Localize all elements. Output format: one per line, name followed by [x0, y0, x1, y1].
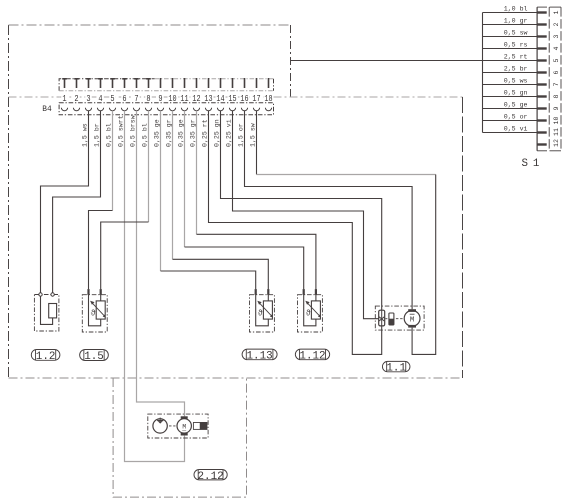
connector B4 pin numbers 1-18: [59, 93, 273, 104]
unit 1.1 box: [375, 306, 424, 330]
svg-text:0,5 brsw: 0,5 brsw: [129, 115, 136, 147]
wire S1 pin9 0,5 ge: [483, 108, 538, 110]
svg-text:8: 8: [553, 94, 560, 98]
wire S1 pin6 2,5 br: [483, 72, 538, 74]
svg-text:1.1: 1.1: [386, 363, 406, 375]
svg-text:ϑ: ϑ: [306, 308, 311, 318]
wire S1 pin1 1,0 bl: [483, 12, 538, 14]
wire B4 pin11 vertical gray: [184, 111, 186, 247]
boundary frame mid horizontal left of B4: [9, 96, 60, 98]
wire label 2,5 br: [504, 66, 528, 73]
wire label 1.5 sw: [249, 123, 256, 147]
washer nozzle symbol in 2.12: [153, 418, 167, 433]
svg-text:10: 10: [553, 117, 560, 125]
svg-text:4: 4: [553, 46, 560, 50]
svg-text:0,35 ge: 0,35 ge: [153, 119, 160, 147]
svg-text:0,35 gr: 0,35 gr: [165, 119, 172, 147]
wire label 1.5 ws: [81, 123, 88, 147]
wire B4 pin9 vertical gray: [160, 111, 162, 271]
wire B4 pin8 to 1.5 right: [101, 222, 149, 289]
designator label 1.12: [295, 349, 329, 362]
wire label 0,5 or: [504, 114, 528, 121]
svg-text:0,5 vi: 0,5 vi: [504, 126, 528, 133]
designator label 1.2: [31, 350, 60, 364]
wire B4 pin16 to 1.1 motor top: [245, 111, 413, 310]
boundary frame 2.12 bay: [113, 378, 246, 497]
wire label 0.5 bl pin5: [105, 123, 112, 147]
svg-text:M: M: [410, 317, 414, 325]
wire label 0.25 rt: [201, 119, 208, 147]
svg-text:1.12: 1.12: [299, 351, 325, 363]
svg-text:0,5 or: 0,5 or: [504, 114, 528, 121]
wire label 0,5 rs: [504, 42, 528, 49]
wire S1 pin7 0,5 ws: [483, 84, 538, 86]
wire label 0.5 brsw: [129, 115, 136, 147]
svg-text:1: 1: [553, 10, 560, 14]
svg-text:1: 1: [533, 158, 539, 170]
resistor 1.2: [34, 293, 59, 331]
valve Y in 1.1: [379, 310, 385, 326]
connector B4 male pins 1-18: [62, 78, 269, 88]
wire B4 pin12 vertical gray: [196, 111, 198, 235]
connector B4 pin-header bottom gray line: [59, 90, 273, 92]
boundary frame step vertical: [290, 25, 292, 97]
wire B4 pin4 to 1.2 right: [53, 111, 101, 293]
svg-text:0,5 bl: 0,5 bl: [141, 123, 148, 147]
wire B4 pin13 to 1.1 valve bottom: [209, 111, 382, 355]
svg-text:0,35 ge: 0,35 ge: [177, 119, 184, 147]
wire B4 pin7 to 2.12 motor top: [137, 111, 185, 417]
svg-text:7: 7: [553, 82, 560, 86]
svg-text:0,5 bl: 0,5 bl: [105, 123, 112, 147]
boundary frame mid horizontal right of B4: [274, 96, 463, 98]
dash link in 1.1: [385, 318, 403, 320]
svg-text:0,5 sw: 0,5 sw: [504, 30, 528, 37]
designator label 1.5: [80, 350, 109, 364]
connector S1 pin numbers 1-12: [553, 10, 560, 146]
wire B4 pin9 to 1.13 left: [161, 271, 256, 289]
svg-text:2.12: 2.12: [198, 471, 224, 483]
wire B4 pin8 vertical gray: [148, 111, 150, 222]
wire S1 pin4 0,5 rs: [483, 48, 538, 50]
temperature sensor 1.13: [250, 289, 275, 332]
svg-text:1,0 gr: 1,0 gr: [504, 18, 528, 25]
designator label 1.13: [242, 349, 277, 362]
wire B4 pin5 to 1.5 left: [89, 211, 113, 290]
wire label 1.5 br: [93, 123, 100, 147]
pump unit 2.12 box: [148, 414, 208, 438]
svg-text:11: 11: [553, 128, 560, 136]
svg-text:0,35 gr: 0,35 gr: [189, 119, 196, 147]
motor M in 2.12: [177, 416, 191, 435]
wire B4 pin6 to 2.12 motor bottom: [125, 111, 185, 462]
wire label 0,5 sw: [504, 30, 528, 37]
wire S1 pin10 0,5 or: [483, 120, 538, 122]
svg-text:1,5 ws: 1,5 ws: [81, 123, 88, 147]
wire S1 pin2 1,0 gr: [483, 24, 538, 26]
wire S1 harness edge: [482, 13, 484, 133]
wire S1 pin5 2,5 rt: [291, 60, 538, 62]
connector B4 socket contacts: [61, 108, 271, 111]
svg-text:5: 5: [553, 58, 560, 62]
wire label 1,0 bl: [504, 6, 528, 13]
designator label 2.12: [194, 470, 227, 483]
temperature sensor 1.12: [298, 289, 323, 332]
connector B4 socket box: [59, 103, 273, 115]
svg-text:6: 6: [553, 70, 560, 74]
svg-text:1,5 sw: 1,5 sw: [249, 123, 256, 147]
svg-text:1.2: 1.2: [36, 351, 56, 363]
wire label 0.5 swrt: [117, 115, 124, 147]
wire label 1,0 gr: [504, 18, 528, 25]
svg-text:9: 9: [553, 106, 560, 110]
svg-text:ϑ: ϑ: [258, 308, 263, 318]
connector B4 designator label: [42, 105, 52, 114]
svg-text:1,5 or: 1,5 or: [237, 123, 244, 147]
svg-text:0,5 rs: 0,5 rs: [504, 42, 528, 49]
svg-text:1,0 bl: 1,0 bl: [504, 6, 528, 13]
boundary frame top edge: [9, 24, 291, 26]
wire B4 pin3 to 1.2 left: [41, 111, 89, 293]
wire B4 pin15 to 1.1 valve left: [233, 111, 379, 319]
svg-text:0,5 swrt: 0,5 swrt: [117, 115, 124, 147]
wire label 1.5 or: [237, 123, 244, 147]
connector plug in 2.12: [193, 422, 207, 430]
svg-text:2,5 br: 2,5 br: [504, 66, 528, 73]
svg-text:0,25 rt: 0,25 rt: [201, 119, 208, 147]
svg-text:0,25 vi: 0,25 vi: [225, 119, 232, 147]
svg-text:2: 2: [553, 22, 560, 26]
wire label 0.35 gr pin12: [189, 119, 196, 147]
wire B4 pin17 vertical: [256, 111, 258, 175]
wire B4 pin12 to 1.12 right: [197, 234, 316, 289]
svg-text:0,5 ws: 0,5 ws: [504, 78, 528, 85]
temperature sensor 1.5: [82, 289, 107, 332]
svg-text:S: S: [522, 158, 528, 170]
svg-text:1.5: 1.5: [84, 351, 104, 363]
connector B4 pin-header box: [59, 79, 273, 91]
svg-text:1.13: 1.13: [247, 351, 273, 363]
connector S1 designator label: [522, 158, 540, 170]
connector S1 body and pins: [537, 7, 561, 151]
wire label 0.35 ge pin11: [177, 119, 184, 147]
dash link in 2.12: [169, 425, 176, 427]
wire S1 pin3 0,5 sw: [483, 36, 538, 38]
motor M in 1.1: [404, 309, 420, 327]
wire S1 pin8 0,5 gn: [483, 96, 538, 98]
svg-text:0,5 ge: 0,5 ge: [504, 102, 528, 109]
wire label 0,5 ge: [504, 102, 528, 109]
boundary frame bottom edge: [9, 377, 463, 379]
wire label 0,5 vi: [504, 126, 528, 133]
designator label 1.1: [382, 361, 410, 374]
svg-text:12: 12: [553, 139, 560, 147]
wire B4 pin14 to 1.1 valve top: [221, 111, 382, 311]
wire label 2,5 rt: [504, 54, 528, 61]
connector plug in 1.1: [389, 313, 394, 325]
svg-text:0,25 gn: 0,25 gn: [213, 119, 220, 147]
wire B4 pin10 vertical gray: [172, 111, 174, 260]
svg-text:1,5 br: 1,5 br: [93, 123, 100, 147]
svg-text:ϑ: ϑ: [91, 308, 96, 318]
wire label 0.35 gr pin10: [165, 119, 172, 147]
wire label 0.35 ge pin9: [153, 119, 160, 147]
boundary frame right edge: [462, 97, 464, 378]
wire S1 pin11 0,5 vi: [483, 132, 538, 134]
wire label 0.25 gn: [213, 119, 220, 147]
wire label 0,5 ws: [504, 78, 528, 85]
wire B4 pin5 vertical gray: [112, 111, 114, 211]
svg-text:B4: B4: [42, 105, 52, 114]
wire B4 pin10 to 1.13 right: [173, 259, 269, 289]
svg-text:0,5 gn: 0,5 gn: [504, 90, 528, 97]
wire B4 pin17 to 1.1 motor bottom: [412, 175, 436, 355]
wire B4 pin11 to 1.12 left: [185, 247, 304, 289]
svg-text:3: 3: [553, 34, 560, 38]
svg-text:M: M: [182, 424, 186, 431]
wire label 0.5 bl pin8: [141, 123, 148, 147]
wire B4 pin17 horizontal gray: [257, 174, 436, 176]
wire label 0.25 vi: [225, 119, 232, 147]
wire label 0,5 gn: [504, 90, 528, 97]
boundary frame left edge: [8, 25, 10, 378]
svg-text:2,5 rt: 2,5 rt: [504, 54, 528, 61]
